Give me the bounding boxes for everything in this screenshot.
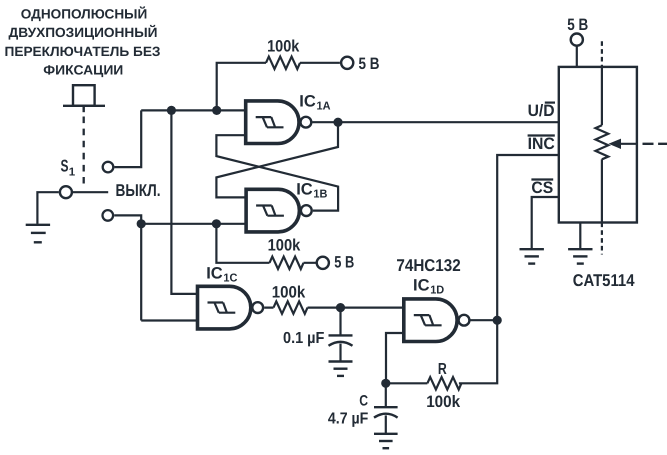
node dot 0.1uF junction — [336, 303, 345, 312]
wire IC1C output to IC1D input — [264, 307, 404, 309]
wire IC1D bottom input to RC node — [386, 333, 404, 383]
5V terminal (top) — [341, 57, 353, 69]
svg-text:74HC132: 74HC132 — [396, 256, 460, 275]
svg-text:CAT5114: CAT5114 — [573, 271, 635, 290]
ground (switch) — [26, 225, 50, 243]
switch S1 lower throw contact — [103, 210, 114, 221]
svg-text:S: S — [61, 157, 69, 176]
svg-text:100k: 100k — [268, 236, 301, 254]
svg-text:ДВУХПОЗИЦИОННЫЙ: ДВУХПОЗИЦИОННЫЙ — [9, 24, 158, 40]
ground (CS) — [520, 249, 544, 263]
node dot IC1A output — [333, 118, 342, 127]
svg-text:1C: 1C — [223, 272, 237, 284]
wire lower contact down to IC1C input rail — [114, 215, 141, 320]
label U/D pin — [528, 102, 555, 120]
ground (0.1uF) — [329, 362, 353, 376]
svg-text:U/D: U/D — [528, 102, 555, 120]
switch S1 pole contact — [60, 186, 72, 198]
wire upper contact to top rail — [114, 110, 141, 167]
svg-text:1B: 1B — [313, 188, 327, 200]
wire cross-coupling IC1B out to IC1A bottom input — [216, 135, 338, 210]
wire CS pin to ground — [532, 197, 559, 249]
switch arm wire — [73, 191, 108, 193]
svg-text:IC: IC — [296, 180, 313, 198]
resistor 100k (IC1C output) — [274, 301, 308, 313]
wire rail to IC1C top input — [171, 110, 197, 294]
node dot at x=216 on IC1B input wire — [212, 219, 221, 228]
wire cross-coupling IC1A out to IC1B top input — [216, 122, 338, 197]
label IC1A — [299, 92, 330, 112]
resistor 100k (top pull-up) — [266, 57, 300, 69]
svg-text:1D: 1D — [430, 284, 444, 296]
svg-text:ОДНОПОЛЮСНЫЙ: ОДНОПОЛЮСНЫЙ — [21, 6, 148, 22]
label CS pin — [531, 179, 553, 197]
wire IC1C bottom input — [141, 319, 197, 321]
NAND gate IC1C — [198, 286, 264, 329]
svg-text:ВЫКЛ.: ВЫКЛ. — [116, 181, 161, 200]
CAT5114 box — [559, 67, 637, 223]
svg-text:0.1 µF: 0.1 µF — [283, 330, 325, 347]
resistor 100k (second pull-up) — [270, 257, 304, 269]
ground (4.7uF) — [374, 434, 398, 448]
ground (CAT5114) — [568, 249, 592, 263]
switch S1 upper throw contact — [103, 162, 114, 173]
svg-text:CS: CS — [531, 179, 553, 197]
svg-text:R: R — [438, 361, 447, 378]
wire box bottom pin to ground — [579, 223, 581, 249]
wire pull-up rail 2 — [216, 224, 316, 263]
svg-text:INC: INC — [528, 135, 555, 153]
pushbutton actuator dashed link — [83, 117, 85, 184]
wire IC1D output — [471, 319, 498, 321]
resistor R 100k (feedback) — [427, 377, 461, 389]
svg-text:5 В: 5 В — [567, 16, 588, 34]
potentiometer element inside CAT5114 — [596, 67, 609, 223]
svg-text:100k: 100k — [272, 284, 306, 302]
dashed line above CAT5114 box — [601, 41, 603, 67]
svg-text:C: C — [359, 393, 368, 410]
svg-text:ФИКСАЦИИ: ФИКСАЦИИ — [43, 62, 123, 77]
dashed wiper extension line — [643, 143, 667, 145]
svg-text:5 В: 5 В — [359, 55, 380, 73]
svg-text:100k: 100k — [267, 37, 300, 55]
capacitor C 4.7uF — [374, 383, 398, 434]
pushbutton cap of S1 — [63, 85, 105, 112]
node dot top rail at x=217 — [212, 106, 221, 115]
wire pole to ground — [37, 192, 58, 224]
wire feedback from output rail down to resistor R — [386, 320, 497, 383]
wire to IC1B lower input — [141, 223, 246, 225]
5V terminal (CAT5114) — [571, 34, 583, 46]
capacitor 0.1uF — [329, 308, 353, 362]
wire IC1A output to CAT5114 U/D pin — [312, 121, 558, 123]
label IC1C — [206, 264, 237, 284]
label INC pin — [528, 135, 555, 153]
svg-text:4.7 µF: 4.7 µF — [328, 411, 369, 428]
node dot IC1D output — [493, 316, 502, 325]
svg-text:IC: IC — [299, 92, 316, 110]
NAND gate IC1A — [246, 101, 312, 144]
label IC1D — [413, 276, 444, 296]
node dot top rail at x=171 — [167, 106, 176, 115]
label S1 — [61, 157, 76, 179]
dashed line below CAT5114 box — [601, 223, 603, 255]
wire pull-up rail 1 — [217, 63, 340, 111]
NAND gate IC1D — [404, 299, 470, 342]
node dot lower rail — [137, 219, 146, 228]
node dot RC junction — [381, 379, 390, 388]
label: switch description text — [5, 6, 161, 78]
svg-text:IC: IC — [206, 264, 223, 282]
svg-text:1: 1 — [69, 167, 76, 179]
wire IC1D output rail up to INC pin — [497, 155, 559, 320]
wire top rail to IC1A input — [141, 109, 246, 111]
label IC1B — [296, 180, 327, 200]
svg-text:1A: 1A — [317, 100, 331, 112]
5V terminal (second) — [317, 257, 329, 269]
svg-text:5 В: 5 В — [334, 253, 354, 271]
NAND gate IC1B — [246, 189, 312, 232]
svg-text:100k: 100k — [426, 393, 461, 411]
svg-text:IC: IC — [413, 276, 430, 294]
wire 5V to box — [576, 46, 578, 67]
svg-text:ПЕРЕКЛЮЧАТЕЛЬ БЕЗ: ПЕРЕКЛЮЧАТЕЛЬ БЕЗ — [5, 44, 161, 59]
wiper arrow — [609, 139, 637, 149]
